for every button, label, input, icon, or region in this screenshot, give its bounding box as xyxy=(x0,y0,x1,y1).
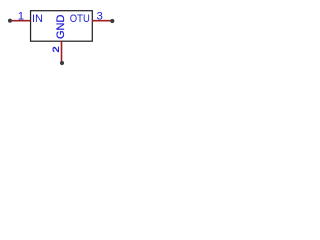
svg-text:2: 2 xyxy=(51,46,62,53)
svg-text:OTU: OTU xyxy=(70,13,90,25)
svg-text:3: 3 xyxy=(97,11,103,23)
svg-text:1: 1 xyxy=(18,11,24,23)
svg-text:GND: GND xyxy=(55,15,67,40)
svg-text:IN: IN xyxy=(32,13,43,25)
